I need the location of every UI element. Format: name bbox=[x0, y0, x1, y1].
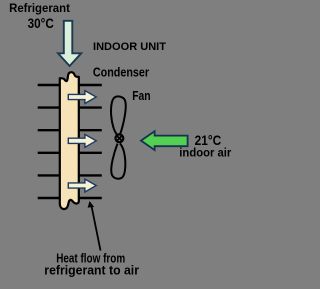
svg-text:Fan: Fan bbox=[132, 88, 150, 103]
svg-text:INDOOR UNIT: INDOOR UNIT bbox=[93, 41, 166, 53]
svg-text:Refrigerant: Refrigerant bbox=[9, 1, 70, 15]
svg-text:refrigerant to air: refrigerant to air bbox=[44, 263, 139, 277]
svg-text:indoor air: indoor air bbox=[179, 146, 231, 160]
svg-text:Condenser: Condenser bbox=[93, 65, 149, 80]
svg-text:30°C: 30°C bbox=[28, 16, 54, 31]
